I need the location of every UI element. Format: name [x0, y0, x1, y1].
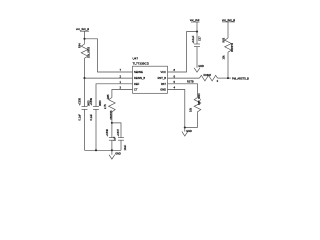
svg-text:+C339: +C339 [90, 97, 93, 105]
svg-text:CT: CT [134, 88, 138, 92]
node J5 (junction dot) [111, 122, 113, 124]
capacitor C339 [90, 97, 102, 120]
svg-text:R65: R65 [106, 94, 110, 99]
wire: REF pin 1 to capacitor C339 [96, 84, 133, 107]
svg-text:0603: 0603 [99, 100, 102, 106]
wire: J5 to capacitor C347 [112, 123, 121, 137]
svg-text:7: 7 [119, 68, 121, 72]
node J2 (junction dot) [83, 77, 85, 79]
svg-text:R64: R64 [78, 43, 82, 48]
capacitor C338 [79, 97, 91, 120]
pin 4 GND label [160, 86, 175, 92]
svg-text:RST_B: RST_B [158, 76, 167, 80]
resistor R65 [104, 94, 115, 120]
pin 5 RST label [161, 80, 176, 86]
pin 3 CT label [119, 86, 137, 92]
ground GND1 [109, 150, 121, 159]
svg-text:10k_0603: 10k_0603 [87, 46, 90, 58]
svg-text:0: 0 [217, 80, 219, 83]
svg-text:GND: GND [160, 88, 166, 92]
svg-text:GND: GND [198, 65, 204, 68]
power net label VCC_3V3_PL (left rail) [76, 27, 89, 31]
svg-text:R66_0603: R66_0603 [198, 93, 201, 105]
svg-text:10uF: 10uF [124, 144, 127, 150]
svg-text:2.7k: 2.7k [104, 104, 107, 109]
wire: C347 to ground bus [120, 140, 122, 150]
wire: label to node J1 [84, 31, 86, 39]
node: bus junction at C340 [111, 149, 113, 151]
svg-text:0603HS: 0603HS [231, 43, 234, 52]
power net label VCC_3V3_PL (pullup rail) [222, 18, 235, 22]
svg-text:R0603: R0603 [204, 74, 212, 77]
pin 1 REF label [119, 80, 139, 86]
wire: C17 to ground [196, 47, 198, 68]
node J6 (junction dot) [184, 126, 186, 128]
svg-text:SENSE: SENSE [134, 70, 143, 74]
svg-text:TL7733BCD: TL7733BCD [133, 61, 150, 65]
capacitor C347 [117, 128, 127, 150]
svg-text:0.1uF: 0.1uF [79, 114, 82, 121]
svg-text:0603HS: 0603HS [110, 110, 113, 119]
pin 7 SENSE label [119, 68, 143, 74]
capacitor C340 [106, 128, 116, 141]
svg-text:vcc_3v3_pl: vcc_3v3_pl [76, 27, 89, 31]
wire: J5 down to capacitor C340 [111, 123, 113, 137]
wire: R66 to ground node [197, 113, 199, 128]
svg-text:0.1uF: 0.1uF [90, 114, 93, 121]
svg-text:10k: 10k [223, 55, 226, 60]
resistor R64 [78, 39, 91, 60]
svg-text:5: 5 [174, 80, 176, 84]
resistor R62 (0 ohm) [200, 74, 219, 83]
svg-text:GND: GND [186, 130, 192, 133]
svg-text:+C338: +C338 [79, 97, 82, 105]
svg-text:PM_ARST5_B: PM_ARST5_B [232, 76, 249, 80]
wire: RST pin 5 to resistor R66 [168, 84, 198, 97]
svg-text:GND: GND [115, 153, 121, 156]
svg-text:6: 6 [174, 74, 176, 78]
IC U47 TL7733BCD (supervisor body) [133, 57, 168, 94]
wire: J2 down to capacitor C338 [84, 78, 86, 106]
svg-text:+C340: +C340 [106, 128, 109, 136]
node: bus junction at C339 [95, 149, 97, 151]
pin 8 VCC label [161, 68, 176, 74]
wire: C340 to ground bus [111, 140, 113, 150]
svg-text:1uF: 1uF [113, 136, 116, 141]
svg-text:VCC: VCC [161, 70, 167, 74]
svg-text:3: 3 [119, 86, 121, 90]
wire: C338 to ground bus [84, 109, 86, 150]
ground GND2 [194, 65, 204, 72]
svg-text:+C347: +C347 [117, 128, 120, 136]
capacitor C17 [192, 35, 201, 46]
pin 2 RESIN_B label [119, 74, 145, 80]
wire: GND pin 4 down [168, 90, 185, 128]
wire: J3 to capacitor C17 [196, 32, 198, 44]
svg-text:2: 2 [119, 74, 121, 78]
wire: J2 to RESIN_B pin 2 [85, 77, 133, 79]
svg-text:vcc_3v3: vcc_3v3 [190, 18, 200, 22]
svg-text:R63: R63 [222, 37, 226, 42]
svg-text:C17: C17 [199, 36, 202, 41]
wire: label to R63 [227, 22, 229, 38]
svg-text:U47: U47 [133, 57, 139, 61]
wire: label to J3 [196, 22, 198, 32]
wire: CT pin 3 to resistor R65 [112, 90, 133, 98]
svg-text:8: 8 [174, 68, 176, 72]
power net label VCC_3V3 (top) [190, 18, 200, 22]
resistor R66 [190, 93, 201, 113]
wire: ground bus [85, 149, 122, 151]
wire: J1 to SENSE pin 7 [85, 39, 133, 72]
wire: ground tie bus [185, 127, 198, 129]
node J4 (junction dot) [227, 77, 229, 79]
svg-text:RST: RST [161, 82, 167, 86]
svg-text:1: 1 [119, 80, 121, 84]
node J3 (junction dot) [196, 31, 198, 33]
wire: R62 to node J4 [218, 77, 232, 79]
ground GND3 [182, 128, 192, 137]
wire: VCC pin 8 to node J3 [168, 32, 198, 72]
wire: RST_B pin 6 to resistor R62 [168, 77, 200, 79]
wire: R63 to node J4 [227, 53, 229, 78]
resistor R63 [222, 37, 234, 59]
svg-text:REF: REF [134, 82, 140, 86]
svg-text:4: 4 [174, 86, 176, 90]
svg-text:vcc_3v3_pl: vcc_3v3_pl [222, 18, 235, 22]
node J1 (junction dot) [83, 38, 85, 40]
svg-text:10k: 10k [190, 107, 193, 112]
wire: R65 to node J5 [111, 113, 113, 123]
wire: R64 to node J2 [84, 60, 86, 79]
svg-text:RESIN_B: RESIN_B [134, 76, 145, 80]
wire: C339 to ground bus [95, 109, 97, 150]
pin 6 RST_B label [158, 74, 176, 80]
svg-text:RSTB: RSTB [187, 81, 194, 84]
svg-text:+0.1uF: +0.1uF [192, 35, 195, 43]
